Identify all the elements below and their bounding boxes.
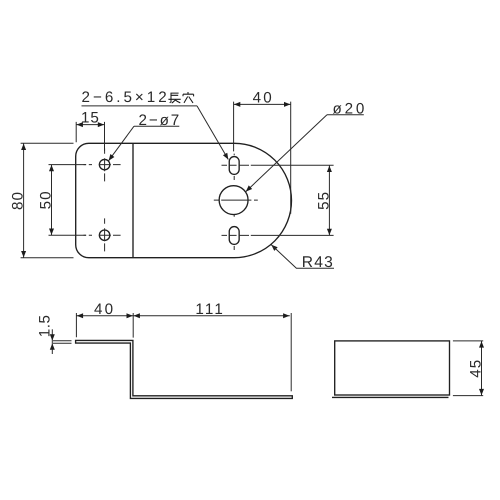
dim 80: arrowheads bbox=[21, 144, 26, 258]
dim 1.5: arrowheads bbox=[50, 334, 55, 350]
svg-text:80: 80 bbox=[10, 191, 27, 210]
dim 1.5: dimension line bbox=[51, 329, 53, 354]
centerline vertical dashes bottom slot bbox=[233, 215, 235, 250]
svg-text:111: 111 bbox=[195, 301, 225, 318]
centerline horizontal through top slot bbox=[222, 164, 250, 166]
centerline vertical through top-left hole bbox=[104, 148, 106, 181]
slot 6.5x12 top bbox=[229, 157, 239, 175]
leader phi20: leader line to phi20 hole bbox=[246, 115, 327, 192]
slot 6.5x12 bottom bbox=[229, 227, 239, 245]
svg-text:40: 40 bbox=[253, 90, 274, 107]
dim 50: extension lines bbox=[49, 165, 87, 236]
centerline vertical dashes top slot bbox=[233, 154, 235, 180]
centerline horizontal through top-left hole bbox=[84, 164, 121, 166]
leader hole label: leader line to top hole bbox=[109, 126, 134, 161]
dim 80: extension lines bbox=[21, 143, 74, 257]
svg-text:55: 55 bbox=[316, 191, 333, 210]
dim 15: arrowheads bbox=[77, 122, 105, 127]
dim 46: extension lines bbox=[453, 341, 483, 396]
dim 40 side: arrowheads bbox=[77, 313, 133, 318]
leader hole label: underline bbox=[134, 125, 179, 127]
dim 40 side: dimension line bbox=[76, 315, 133, 317]
leader phi20: arrowhead bbox=[244, 185, 252, 193]
centerline horizontal through bottom-left hole bbox=[84, 234, 121, 236]
svg-text:50: 50 bbox=[38, 190, 55, 209]
svg-text:45: 45 bbox=[467, 359, 484, 378]
svg-text:R43: R43 bbox=[302, 254, 334, 271]
dim 46: dimension line bbox=[481, 341, 483, 396]
dim 55: arrowheads bbox=[327, 166, 332, 236]
leader slot label: kanji naga (long) drawn as path bbox=[168, 93, 180, 104]
dim 80: dimension line bbox=[23, 143, 25, 257]
hole phi20 bbox=[219, 186, 248, 215]
bend line in top view bbox=[132, 143, 134, 257]
leader phi20: underline bbox=[327, 114, 364, 116]
leader hole label: arrowhead bbox=[107, 154, 115, 162]
centerline vertical through bottom-left hole bbox=[104, 218, 106, 251]
dim 50: dimension line bbox=[51, 165, 53, 236]
leader slot label: leader line to top slot bbox=[197, 106, 228, 160]
leader slot label: underline bbox=[82, 105, 198, 107]
dim 111: arrowheads bbox=[134, 313, 290, 318]
dim 40 top: arrowheads bbox=[234, 102, 291, 107]
leader R43: arrowhead on arc bbox=[270, 243, 278, 251]
dim 1.5: extension lines bbox=[53, 341, 72, 344]
svg-text:40: 40 bbox=[94, 301, 115, 318]
end view: bottom flange edge line bbox=[332, 396, 449, 398]
dim 40 side: extension lines bbox=[76, 313, 133, 338]
dim 55: dimension line bbox=[328, 165, 330, 235]
dim 15: dimension line bbox=[76, 124, 104, 126]
dim 40 top: dimension line bbox=[234, 103, 291, 105]
leader R43: leader line bbox=[271, 245, 334, 269]
leader slot label: arrowhead bbox=[223, 153, 231, 161]
svg-text:2−6.5×12: 2−6.5×12 bbox=[82, 89, 170, 106]
leader slot label: kanji ana (hole) drawn as path bbox=[183, 92, 194, 103]
top view: plate outline (rounded-left rect with R43 semicircular right end) bbox=[76, 143, 292, 257]
svg-text:15: 15 bbox=[81, 109, 100, 126]
hole phi7 top-left bbox=[99, 159, 109, 169]
dim 46: arrowheads bbox=[479, 341, 484, 395]
dim 111: right extension line bbox=[290, 313, 292, 391]
end view: web rectangle bbox=[335, 341, 450, 395]
dim 55: extension lines bbox=[251, 165, 334, 235]
dim 40 top: extension lines bbox=[234, 102, 291, 214]
centerline horizontal through phi20 hole bbox=[214, 199, 258, 201]
hole phi7 bottom-left bbox=[99, 230, 109, 240]
dim 50: arrowheads bbox=[49, 165, 54, 235]
dim 15: extension lines bbox=[76, 122, 104, 151]
dim 111: dimension line bbox=[133, 315, 290, 317]
svg-text:1.5: 1.5 bbox=[36, 315, 53, 338]
centerline horizontal through bottom slot bbox=[222, 234, 250, 236]
side view: Z-bend sheet profile bbox=[76, 340, 293, 398]
